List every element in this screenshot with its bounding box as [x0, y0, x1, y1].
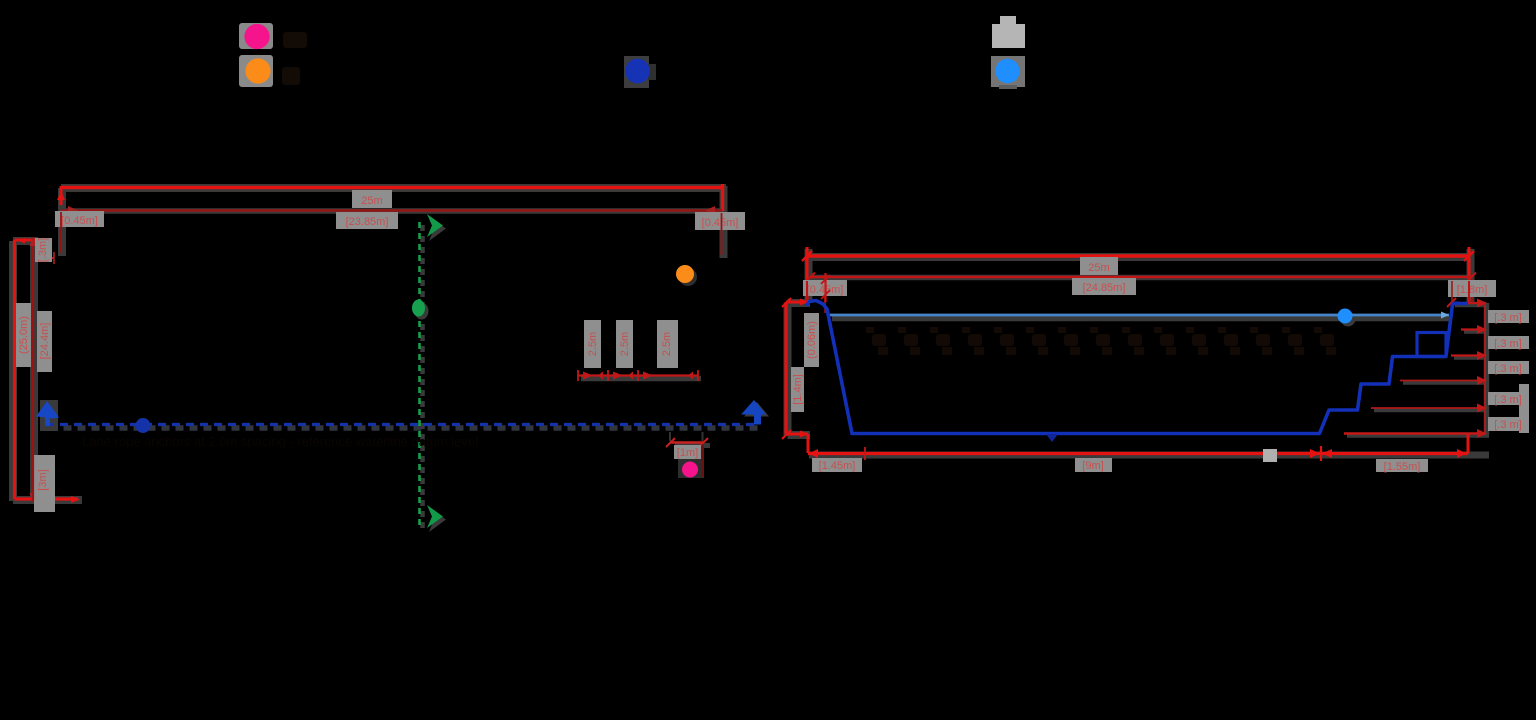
svg-text:[.3 m]: [.3 m] [1494, 419, 1522, 431]
svg-text:[24.85m]: [24.85m] [1083, 282, 1126, 294]
svg-text:2.5m: 2.5m [619, 332, 631, 356]
svg-text:[.3 m]: [.3 m] [1494, 338, 1522, 350]
svg-text:[3m]: [3m] [37, 469, 49, 490]
svg-text:[.3 m]: [.3 m] [1494, 363, 1522, 375]
svg-text:[1.4m]: [1.4m] [792, 374, 804, 405]
svg-text:(25.0m): (25.0m) [18, 316, 30, 354]
svg-text:[1.55m]: [1.55m] [1384, 461, 1421, 473]
svg-text:Lane rope anchors at 2.0m spac: Lane rope anchors at 2.0m spacing - refe… [82, 434, 478, 449]
svg-text:[24.4m]: [24.4m] [39, 323, 51, 360]
svg-text:[9m]: [9m] [1082, 460, 1103, 472]
svg-text:25m: 25m [361, 195, 382, 207]
svg-text:(0.06m): (0.06m) [806, 321, 818, 359]
svg-text:2.5m: 2.5m [661, 332, 673, 356]
svg-text:25m: 25m [1088, 262, 1109, 274]
svg-text:[0.45m]: [0.45m] [702, 217, 739, 229]
svg-text:[0.45m]: [0.45m] [61, 215, 98, 227]
svg-text:[23.85m]: [23.85m] [346, 216, 389, 228]
svg-text:[1.45m]: [1.45m] [819, 460, 856, 472]
svg-text:[.3m]: [.3m] [37, 238, 49, 262]
svg-text:[1.8m]: [1.8m] [1457, 284, 1488, 296]
svg-text:[.3 m]: [.3 m] [1494, 312, 1522, 324]
svg-text:[1m]: [1m] [677, 447, 698, 459]
svg-text:2.5m: 2.5m [587, 332, 599, 356]
svg-text:[.3 m]: [.3 m] [1494, 394, 1522, 406]
